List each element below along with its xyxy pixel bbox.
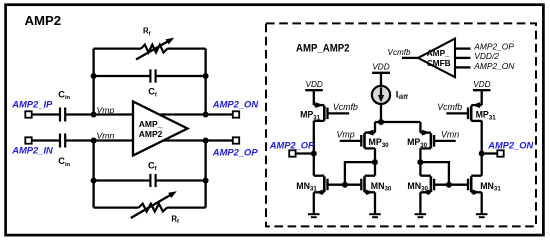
capacitor C_in (top) bbox=[60, 108, 65, 122]
node AMP2_OP label bbox=[212, 147, 259, 158]
transistor MN31 (left) label bbox=[296, 181, 317, 193]
wire CMFB out AMP2_OP bbox=[455, 47, 471, 49]
node Vmn label bbox=[97, 130, 115, 140]
capacitor C_f (top) wire bbox=[94, 75, 206, 77]
svg-text:AMP2_ON: AMP2_ON bbox=[487, 140, 533, 150]
power VDD (center) label bbox=[372, 63, 389, 72]
resistor R_f (top) label bbox=[143, 27, 151, 38]
resistor R_f (top) arrow bbox=[136, 38, 174, 60]
svg-text:AMP2_ON: AMP2_ON bbox=[473, 61, 515, 71]
wire Idiff to tail bbox=[380, 104, 382, 122]
svg-text:VDD: VDD bbox=[372, 63, 389, 72]
power VDD (center) bar bbox=[372, 72, 390, 74]
wire VDD to Idiff bbox=[380, 73, 382, 86]
wire top-right vertical bbox=[204, 49, 206, 115]
junction ON bbox=[203, 112, 209, 118]
transistor MP31 (left) bbox=[314, 102, 349, 121]
svg-text:Vmp: Vmp bbox=[97, 105, 115, 115]
wire MP31 right drain bbox=[481, 121, 483, 176]
op-amp AMP_CMFB bbox=[418, 39, 455, 78]
transistor MN30 (left) bbox=[361, 176, 375, 214]
svg-text:VDD: VDD bbox=[306, 80, 323, 89]
junction Cf-bottom left bbox=[91, 178, 97, 184]
terminal AMP2_IN bbox=[25, 137, 31, 143]
node AMP2_IN label bbox=[11, 144, 53, 155]
transistor MN30 (right) label bbox=[407, 181, 428, 193]
resistor R_f (bottom) arrow bbox=[131, 191, 177, 218]
capacitor C_f (top) label bbox=[148, 87, 157, 99]
svg-text:CMFB: CMFB bbox=[427, 58, 451, 68]
svg-text:AMP2_OP: AMP2_OP bbox=[212, 147, 259, 158]
svg-text:AMP_: AMP_ bbox=[427, 48, 450, 58]
terminal AMP2_OP bbox=[233, 137, 239, 143]
wire bottom-right vertical bbox=[204, 141, 206, 208]
wire MN gates (right) bbox=[434, 184, 468, 186]
wire MP30 right drain bbox=[419, 148, 421, 176]
junction Cf-top right bbox=[203, 73, 209, 79]
terminal AMP2_ON bbox=[233, 111, 239, 117]
node AMP2_ON label bbox=[212, 99, 259, 110]
wire VDD to MP31 right bbox=[481, 90, 483, 105]
svg-text:VDD/2: VDD/2 bbox=[474, 51, 499, 61]
op-amp AMP_AMP2 bbox=[133, 102, 188, 156]
capacitor C_f (bottom) wire bbox=[94, 179, 206, 181]
transistor MP31 (right) label bbox=[476, 110, 497, 122]
node AMP2_OP label (CMFB) bbox=[473, 41, 514, 51]
junction MN gates (right) bbox=[446, 182, 452, 188]
capacitor C_f (bottom) label bbox=[148, 160, 157, 172]
resistor R_f (top) bbox=[94, 45, 206, 53]
wire MN gates (left) bbox=[328, 184, 362, 186]
capacitor C_in (top) label bbox=[58, 89, 70, 101]
label AMP_AMP2 bbox=[296, 42, 350, 54]
transistor MN30 (right) bbox=[420, 176, 434, 214]
junction OP bbox=[203, 138, 209, 144]
junction Vmn bbox=[91, 138, 97, 144]
svg-text:AMP2: AMP2 bbox=[139, 129, 163, 139]
wire opamp to AMP2_OP bbox=[163, 139, 233, 141]
wire VDD to MP31 left bbox=[313, 90, 315, 105]
op-amp label line2 bbox=[139, 129, 163, 139]
node Vcmfb label (CMFB in) bbox=[388, 48, 411, 57]
capacitor C_in (bottom) bbox=[60, 134, 65, 148]
wire Vcmfb to CMFB bbox=[402, 57, 418, 59]
net Vmp label (MP30 (left) gate) bbox=[337, 130, 355, 140]
terminal AMP2_OP (right block) bbox=[289, 150, 295, 156]
wire AMP2_IN to Cin bbox=[32, 139, 60, 141]
wire MP31 left drain bbox=[313, 121, 315, 176]
junction AMP2_OP node bbox=[311, 151, 317, 157]
transistor MP30 (right) label bbox=[407, 137, 428, 149]
net Vcmfb label (MP31 (right) gate) bbox=[437, 102, 462, 112]
current source I_diff bbox=[372, 86, 390, 104]
dashed box AMP_AMP2 bbox=[266, 23, 536, 226]
junction AMP2_ON node bbox=[479, 151, 485, 157]
wire tail rail bbox=[375, 121, 420, 123]
wire diode connection (right) bbox=[420, 162, 449, 185]
resistor R_f (bottom) label bbox=[171, 214, 179, 225]
junction tail bbox=[378, 119, 384, 125]
wire AMP2_OP stub bbox=[296, 152, 314, 154]
wire diode connection (left) bbox=[345, 162, 375, 185]
node AMP2_IP label bbox=[11, 98, 53, 109]
node Vmp label bbox=[97, 105, 115, 115]
ground (MN31 right) bbox=[476, 214, 488, 217]
wire CMFB out AMP2_ON bbox=[455, 66, 471, 68]
svg-text:AMP_AMP2: AMP_AMP2 bbox=[296, 42, 350, 54]
title AMP2 bbox=[25, 13, 62, 28]
terminal AMP2_IP bbox=[25, 111, 31, 117]
terminal AMP2_ON (right block) bbox=[497, 150, 503, 156]
node AMP2_ON label (CMFB) bbox=[473, 61, 515, 71]
svg-text:AMP2_ON: AMP2_ON bbox=[212, 99, 259, 110]
svg-text:VDD: VDD bbox=[473, 80, 490, 89]
node VDD/2 label bbox=[474, 51, 499, 61]
svg-text:AMP2_OP: AMP2_OP bbox=[473, 41, 514, 51]
power VDD (right) bar bbox=[473, 89, 491, 91]
svg-text:AMP2_IP: AMP2_IP bbox=[11, 98, 53, 109]
power VDD (right) label bbox=[473, 80, 490, 89]
svg-text:Vcmfb: Vcmfb bbox=[437, 102, 462, 112]
wire tail to MP30 left source bbox=[374, 122, 376, 133]
transistor MN31 (right) label bbox=[480, 181, 501, 193]
power VDD (left) label bbox=[306, 80, 323, 89]
wire AMP2_IP to Cin bbox=[32, 113, 60, 115]
svg-text:Vmn: Vmn bbox=[97, 130, 115, 140]
svg-text:Vcmfb: Vcmfb bbox=[333, 102, 358, 112]
svg-text:AMP_: AMP_ bbox=[139, 119, 163, 129]
transistor MN31 (right) bbox=[468, 176, 482, 214]
power VDD (left) bar bbox=[305, 89, 323, 91]
op-amp CMFB label line2 bbox=[427, 58, 451, 68]
capacitor C_f (bottom) bbox=[150, 174, 155, 187]
transistor MP31 (right) bbox=[446, 102, 481, 121]
wire tail to MP30 right source bbox=[419, 122, 421, 133]
junction MP30-left drain bbox=[372, 159, 378, 165]
wire bottom-left vertical bbox=[92, 141, 94, 208]
capacitor C_f (top) bbox=[150, 69, 155, 82]
ground (MN31 left) bbox=[308, 214, 320, 217]
capacitor C_in (bottom) label bbox=[58, 156, 70, 168]
junction Cf-bottom right bbox=[203, 178, 209, 184]
transistor MP31 (left) label bbox=[300, 110, 321, 122]
resistor R_f (bottom) bbox=[94, 204, 206, 212]
svg-text:Vmp: Vmp bbox=[337, 130, 355, 140]
transistor MP30 (left) label bbox=[369, 137, 390, 149]
wire AMP2_ON stub bbox=[482, 152, 498, 154]
wire Cin to opamp (node Vmn) bbox=[65, 139, 133, 141]
junction MN gates (left) bbox=[342, 182, 348, 188]
op-amp CMFB label line1 bbox=[427, 48, 450, 58]
wire Vmp up-left vertical bbox=[92, 49, 94, 115]
svg-text:AMP2_OP: AMP2_OP bbox=[269, 140, 315, 150]
svg-text:Vmn: Vmn bbox=[441, 130, 459, 140]
net Vcmfb label (MP31 (left) gate) bbox=[333, 102, 358, 112]
net Vmn label (MP30 (right) gate) bbox=[441, 130, 459, 140]
node AMP2_ON label (right block) bbox=[487, 140, 533, 150]
transistor MN30 (left) label bbox=[371, 181, 392, 193]
wire MP30 left drain bbox=[374, 148, 376, 176]
ground (MN30 left) bbox=[369, 214, 381, 217]
junction Vmp bbox=[91, 112, 97, 118]
svg-text:Vcmfb: Vcmfb bbox=[388, 48, 411, 57]
wire opamp to AMP2_ON bbox=[159, 113, 233, 115]
current source I_diff label bbox=[396, 89, 409, 101]
junction MP30-right drain bbox=[417, 159, 423, 165]
transistor MN31 (left) bbox=[314, 176, 328, 214]
transistor MP30 (left) bbox=[340, 130, 375, 149]
wire Cin to opamp (node Vmp) bbox=[65, 113, 133, 115]
ground (MN30 right) bbox=[415, 214, 427, 217]
svg-text:AMP2_IN: AMP2_IN bbox=[11, 144, 53, 155]
wire CMFB in VDD/2 bbox=[455, 57, 471, 59]
node AMP2_OP label (right block) bbox=[269, 140, 315, 150]
svg-text:AMP2: AMP2 bbox=[25, 13, 62, 28]
junction Cf-top left bbox=[91, 73, 97, 79]
transistor MP30 (right) bbox=[420, 130, 455, 149]
op-amp label line1 bbox=[139, 119, 163, 129]
